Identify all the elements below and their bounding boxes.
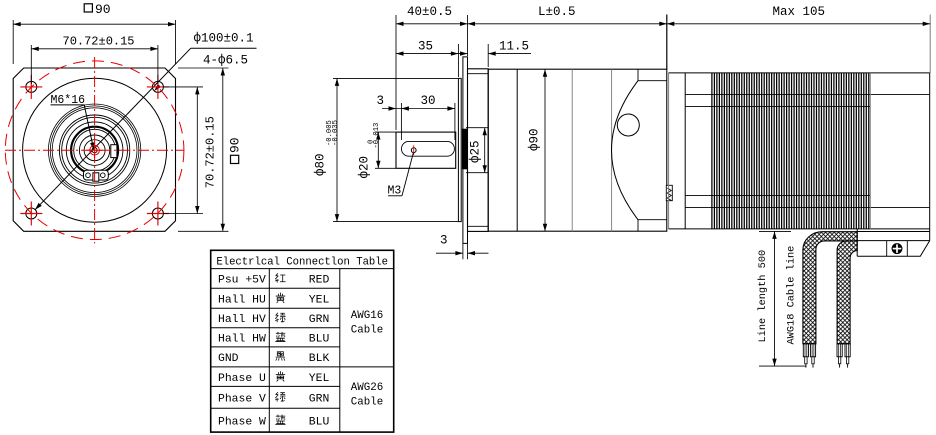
- svg-text:70.72±0.15: 70.72±0.15: [63, 34, 135, 48]
- svg-text:M3: M3: [388, 185, 402, 198]
- svg-text:AWG26: AWG26: [351, 382, 383, 394]
- svg-text:90: 90: [95, 2, 111, 17]
- svg-text:YEL: YEL: [309, 373, 330, 385]
- svg-text:ф90: ф90: [528, 128, 542, 151]
- svg-text:30: 30: [421, 94, 436, 108]
- svg-text:AWG18 Cable line: AWG18 Cable line: [786, 246, 798, 345]
- svg-text:BLK: BLK: [309, 353, 330, 365]
- svg-text:ф80: ф80: [314, 153, 328, 176]
- svg-text:35: 35: [418, 40, 433, 54]
- svg-text:Phase V: Phase V: [218, 394, 266, 406]
- svg-text:L±0.5: L±0.5: [538, 5, 576, 19]
- svg-text:Cable: Cable: [351, 325, 383, 337]
- svg-text:Electrlcal Connectlon Table: Electrlcal Connectlon Table: [216, 257, 388, 269]
- svg-text:11.5: 11.5: [499, 40, 529, 54]
- svg-text:70.72±0.15: 70.72±0.15: [204, 116, 218, 188]
- svg-text:YEL: YEL: [309, 294, 330, 306]
- svg-text:Psu +5V: Psu +5V: [218, 275, 266, 287]
- svg-text:Line length 500: Line length 500: [757, 250, 769, 343]
- svg-text:3: 3: [440, 234, 448, 248]
- svg-text:RED: RED: [309, 275, 330, 287]
- svg-text:GRN: GRN: [309, 314, 330, 326]
- svg-text:4-ф6.5: 4-ф6.5: [203, 54, 248, 68]
- svg-text:3: 3: [377, 94, 385, 108]
- svg-text:GND: GND: [218, 353, 239, 365]
- svg-text:Hall HV: Hall HV: [218, 314, 266, 326]
- svg-text:Max 105: Max 105: [773, 5, 826, 19]
- svg-text:BLU: BLU: [309, 334, 330, 346]
- svg-text:-0.035: -0.035: [332, 120, 340, 146]
- svg-text:AWG16: AWG16: [351, 310, 383, 322]
- svg-text:BLU: BLU: [309, 416, 330, 428]
- svg-text:90: 90: [228, 137, 243, 153]
- svg-text:GRN: GRN: [309, 394, 330, 406]
- svg-text:ф20: ф20: [357, 156, 371, 179]
- svg-text:Hall HU: Hall HU: [218, 294, 266, 306]
- svg-text:40±0.5: 40±0.5: [407, 5, 452, 19]
- svg-text:-0.013: -0.013: [373, 123, 381, 149]
- svg-text:ф100±0.1: ф100±0.1: [194, 32, 254, 46]
- svg-text:Hall HW: Hall HW: [218, 334, 266, 346]
- svg-text:M6*16: M6*16: [51, 94, 86, 107]
- svg-text:Phase U: Phase U: [218, 373, 266, 385]
- svg-text:Cable: Cable: [351, 397, 383, 409]
- svg-text:ф25: ф25: [469, 140, 483, 163]
- svg-text:Phase W: Phase W: [218, 416, 266, 428]
